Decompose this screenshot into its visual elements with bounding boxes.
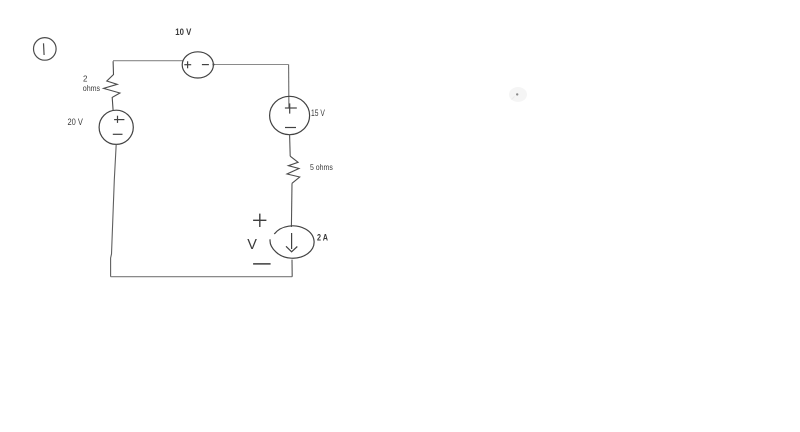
- V3 plus mark: [285, 107, 297, 109]
- junction dot at V1 right terminal: [212, 63, 214, 65]
- V2 plus mark: [114, 119, 124, 121]
- svg-text:ohms: ohms: [83, 84, 100, 93]
- wire top-right horizontal: [214, 64, 289, 66]
- V1 plus mark: [184, 64, 191, 66]
- svg-text:10 V: 10 V: [175, 27, 191, 37]
- resistor R1 2 ohms: [104, 61, 120, 110]
- I1 arrow: [291, 233, 293, 249]
- V polarity minus: [253, 263, 271, 265]
- resistor R2 5 ohms: [287, 156, 300, 183]
- voltage source V3 15V: [270, 96, 310, 134]
- V3 minus mark: [285, 127, 296, 129]
- wire left vertical: [111, 144, 117, 276]
- voltage source V2 20V: [99, 110, 133, 144]
- V polarity plus: [253, 214, 266, 227]
- wire top-left horizontal: [113, 60, 183, 62]
- wire between R2 and current source: [290, 183, 293, 227]
- svg-text:20 V: 20 V: [68, 117, 83, 127]
- wire below current source: [291, 260, 293, 277]
- voltage source V1 10V: [182, 52, 214, 78]
- svg-text:5 ohms: 5 ohms: [310, 163, 333, 172]
- stray mark: [509, 87, 527, 102]
- wire between 15V and R2: [289, 135, 292, 156]
- node I circle: [34, 38, 57, 61]
- svg-text:2 A: 2 A: [317, 232, 328, 242]
- svg-text:2: 2: [83, 74, 88, 83]
- V1 minus mark: [202, 64, 209, 66]
- V2 minus mark: [113, 133, 123, 135]
- svg-text:V: V: [247, 237, 257, 253]
- wire right vertical (top): [288, 65, 290, 108]
- svg-text:15 V: 15 V: [311, 108, 325, 118]
- wire bottom horizontal: [111, 276, 293, 278]
- current source I1 2A: [270, 226, 314, 258]
